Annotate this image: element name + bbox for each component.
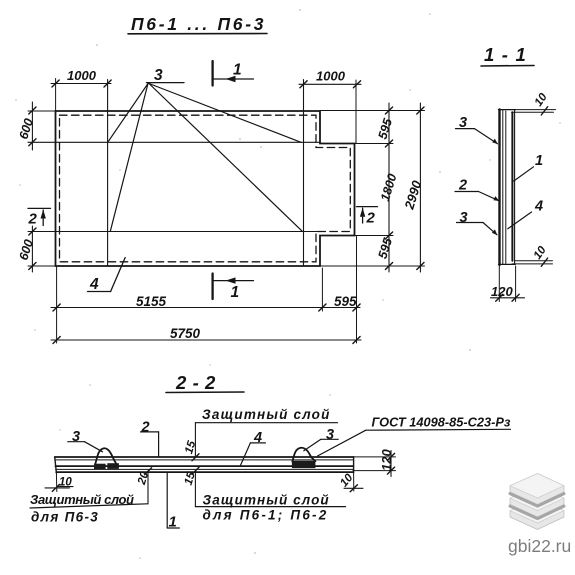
svg-text:3: 3 [326, 427, 334, 443]
dim 10 (2-2 right) [338, 471, 363, 491]
vertical line 1000 from right [303, 80, 305, 267]
label 3 with leaders (plan) [108, 67, 303, 231]
section mark 2 (left) [28, 208, 51, 227]
title plan П6-1 ... П6-3 [131, 14, 266, 34]
mesh dashed outline [60, 115, 351, 262]
svg-text:Защитный слой: Защитный слой [202, 407, 331, 422]
note Защитный слой для П6-3 (left) [30, 492, 148, 525]
leader 1 (2-2) [167, 473, 179, 531]
dim 15 (2-2 bottom) [183, 467, 199, 506]
dim 5155 + 595 [51, 294, 360, 311]
svg-text:1: 1 [233, 62, 242, 79]
svg-text:1-1: 1-1 [484, 44, 533, 65]
dim 2990 (outer right) [401, 103, 424, 272]
label 4 (1-1) [508, 199, 543, 229]
panel outline (plan) [56, 111, 355, 266]
svg-text:ГОСТ 14098-85-С23-Рз: ГОСТ 14098-85-С23-Рз [372, 415, 511, 430]
label 2 (1-1) [455, 178, 499, 202]
svg-text:2-2: 2-2 [175, 372, 222, 393]
shadow bands [510, 494, 564, 507]
label 1 (1-1) [514, 153, 543, 181]
label 2 (2-2) [141, 420, 159, 458]
svg-text:5155: 5155 [136, 294, 167, 309]
svg-text:5750: 5750 [170, 326, 201, 341]
bottom slab [510, 499, 564, 530]
dim 20 (2-2) [136, 468, 152, 504]
lifting loop mound left [94, 448, 119, 469]
svg-text:2: 2 [141, 420, 150, 436]
label 3 (1-1 bottom) [457, 210, 498, 235]
section mark 1 (bottom) [213, 274, 254, 302]
title underline [128, 33, 267, 35]
dim 10 (1-1 bottom) [512, 244, 553, 266]
svg-text:3: 3 [460, 210, 468, 226]
label 3 (2-2 left) [68, 429, 103, 452]
logo icon (stacked slabs) [510, 474, 564, 530]
section mark 2 (right) [357, 207, 378, 227]
inner line top (600 from top) [28, 141, 320, 143]
dim line 595/1800/595 (right) [375, 103, 399, 272]
svg-text:120: 120 [379, 449, 394, 471]
dim 5750 [51, 326, 361, 344]
svg-text:2: 2 [28, 211, 38, 228]
note Защитный слой для П6-1; П6-2 (right) [195, 493, 345, 523]
svg-text:4: 4 [89, 276, 99, 293]
svg-text:120: 120 [491, 284, 513, 299]
vertical line 1000 from left [107, 80, 109, 267]
dim 15 (2-2 top) [183, 423, 199, 461]
right extension lines [320, 110, 425, 112]
svg-text:1800: 1800 [378, 172, 400, 203]
dim 1000 top-left [51, 68, 111, 111]
slab left end [55, 457, 57, 473]
svg-text:4: 4 [253, 430, 262, 446]
svg-text:600: 600 [16, 238, 35, 262]
svg-text:1: 1 [169, 514, 177, 531]
bottom extension lines [56, 267, 58, 343]
svg-text:2990: 2990 [401, 178, 424, 212]
svg-text:595: 595 [334, 294, 357, 309]
dim 600 top-left [16, 102, 55, 150]
section mark 1 (top) [213, 61, 254, 86]
inner line bottom (600 from bottom) [28, 231, 320, 233]
top slab [510, 474, 564, 505]
svg-text:595: 595 [375, 116, 395, 141]
svg-text:4: 4 [534, 199, 543, 215]
label 3 (1-1 top) [456, 115, 498, 144]
svg-text:для П6-3: для П6-3 [31, 510, 99, 525]
slab right end [353, 457, 355, 473]
svg-text:1: 1 [535, 153, 543, 169]
dim 120 (1-1 bottom) [491, 266, 525, 302]
svg-text:15: 15 [183, 439, 198, 455]
dim 120 (2-2 right) [353, 449, 396, 477]
svg-text:600: 600 [16, 117, 35, 141]
label 3 (2-2 right) [304, 427, 338, 451]
section 1-1 body [499, 110, 516, 266]
note ГОСТ 14098-85-С23-Рз [318, 415, 511, 457]
svg-text:2: 2 [366, 210, 376, 227]
dim 600 bottom-left [16, 226, 55, 272]
svg-text:1000: 1000 [67, 68, 97, 83]
svg-text:3: 3 [72, 429, 80, 445]
svg-text:gbi22.ru: gbi22.ru [508, 536, 571, 556]
title 1-1 [481, 44, 534, 66]
middle slab [510, 486, 564, 517]
dim 10 (1-1 top) [512, 91, 556, 115]
svg-text:Защитный слой: Защитный слой [203, 493, 330, 508]
slab lines (2-2) [55, 457, 354, 473]
label 4 (2-2) [240, 430, 265, 466]
svg-text:П6-1 ... П6-3: П6-1 ... П6-3 [131, 14, 266, 34]
dim 1000 top-right [299, 69, 361, 144]
svg-text:3: 3 [154, 67, 163, 84]
svg-text:595: 595 [375, 235, 395, 260]
title 2-2 [166, 372, 244, 393]
dim 10 (2-2 left) [45, 473, 73, 492]
svg-text:для П6-1; П6-2: для П6-1; П6-2 [203, 508, 329, 523]
lifting loop mound right [292, 448, 316, 468]
svg-text:1000: 1000 [316, 69, 346, 84]
svg-text:1: 1 [231, 284, 240, 301]
note Защитный слой (top) [195, 407, 337, 423]
label 4 with leader (plan) [88, 258, 126, 294]
